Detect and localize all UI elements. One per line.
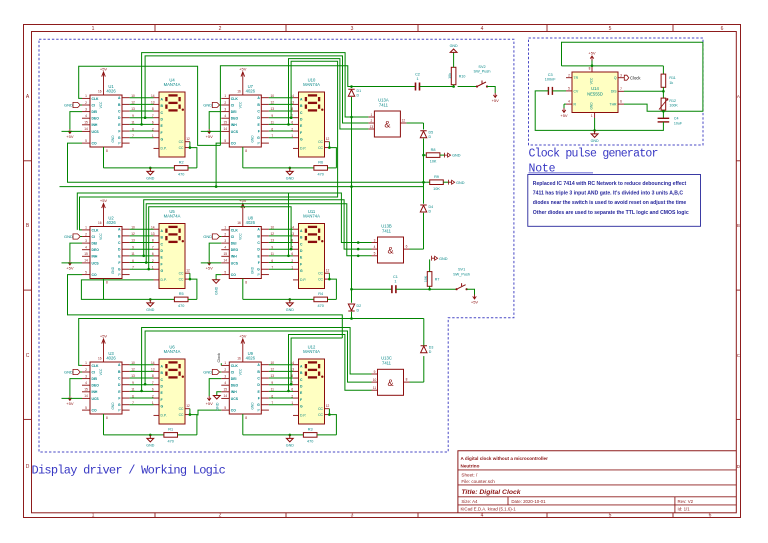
- svg-text:CI: CI: [92, 235, 95, 239]
- svg-text:CLK: CLK: [231, 228, 239, 232]
- svg-text:G: G: [257, 268, 260, 272]
- svg-text:10k: 10k: [448, 73, 452, 79]
- capacitor C4: [658, 117, 670, 119]
- svg-text:5: 5: [224, 139, 226, 143]
- svg-text:8: 8: [152, 107, 154, 111]
- svg-text:16: 16: [237, 356, 241, 360]
- svg-text:2: 2: [219, 513, 222, 519]
- ground label above R7: [432, 256, 438, 261]
- svg-text:GND: GND: [203, 103, 212, 108]
- gnd below U14: [594, 118, 596, 130]
- svg-text:1: 1: [85, 94, 87, 98]
- svg-text:G: G: [257, 136, 260, 140]
- svg-text:GND: GND: [591, 139, 599, 143]
- svg-text:+5V: +5V: [492, 98, 500, 103]
- svg-text:8: 8: [291, 239, 293, 243]
- resistor R10: [451, 67, 456, 84]
- svg-text:CC: CC: [179, 140, 184, 144]
- svg-text:GND: GND: [111, 135, 115, 143]
- svg-text:15: 15: [224, 252, 228, 256]
- svg-text:+5V: +5V: [588, 51, 596, 56]
- power +5V left of U8: [207, 261, 211, 266]
- svg-text:D: D: [26, 464, 30, 470]
- svg-text:GND: GND: [589, 102, 593, 110]
- svg-text:R5: R5: [179, 292, 184, 296]
- svg-text:GND: GND: [111, 402, 115, 410]
- wire DEI to +5V left of U2: [70, 243, 82, 260]
- svg-text:CLK: CLK: [92, 228, 100, 232]
- svg-text:R1: R1: [168, 428, 173, 432]
- svg-text:INH: INH: [231, 123, 237, 127]
- svg-text:+5V: +5V: [100, 334, 108, 339]
- svg-text:Rev: V2: Rev: V2: [678, 499, 694, 504]
- wire row3 bundle line 3: [289, 335, 372, 391]
- svg-text:DEI: DEI: [231, 377, 237, 381]
- svg-text:13: 13: [370, 125, 374, 129]
- svg-text:MAN74A: MAN74A: [164, 214, 181, 219]
- svg-text:10: 10: [131, 225, 135, 229]
- sheet row ticks and letters: [24, 160, 32, 162]
- svg-text:3: 3: [351, 26, 354, 32]
- svg-text:R11: R11: [669, 76, 675, 80]
- svg-text:D.P.: D.P.: [161, 147, 167, 151]
- svg-text:4: 4: [85, 381, 87, 385]
- svg-text:UCS: UCS: [231, 130, 239, 134]
- bottom wire U1 to resistor R2: [104, 167, 175, 169]
- svg-text:13: 13: [131, 239, 135, 243]
- power +5V left of U9: [207, 396, 211, 401]
- svg-text:CC: CC: [318, 146, 323, 150]
- wire UCS U1: [62, 130, 83, 132]
- svg-text:DEO: DEO: [92, 384, 100, 388]
- svg-text:470: 470: [168, 440, 174, 444]
- svg-text:11: 11: [131, 388, 135, 392]
- svg-text:12: 12: [271, 368, 275, 372]
- wire U7 CO to bus2: [216, 143, 221, 187]
- svg-text:D: D: [429, 135, 432, 139]
- svg-text:8: 8: [152, 239, 154, 243]
- svg-text:B: B: [26, 223, 30, 229]
- svg-text:5: 5: [85, 270, 87, 274]
- svg-text:F: F: [300, 398, 302, 402]
- wires segment A-G U9 to U12: [269, 364, 293, 366]
- svg-text:7: 7: [132, 401, 134, 405]
- wire UCS U7: [201, 130, 222, 132]
- svg-text:INH: INH: [92, 123, 98, 127]
- svg-text:R10: R10: [459, 74, 466, 78]
- svg-text:&: &: [387, 246, 393, 256]
- svg-text:3: 3: [224, 107, 226, 111]
- pin8 ground stub of U2: [103, 279, 105, 300]
- wire row3 clock bus: [79, 319, 424, 366]
- svg-text:1: 1: [291, 401, 293, 405]
- svg-text:CC: CC: [179, 146, 184, 150]
- svg-text:1: 1: [85, 361, 87, 365]
- svg-text:14: 14: [151, 225, 155, 229]
- svg-text:12: 12: [271, 232, 275, 236]
- svg-text:2: 2: [568, 73, 570, 77]
- resistor R11: [661, 74, 666, 87]
- svg-text:CLK: CLK: [231, 364, 239, 368]
- svg-text:10: 10: [271, 361, 275, 365]
- svg-text:DEI: DEI: [92, 242, 98, 246]
- svg-text:5: 5: [609, 513, 612, 519]
- svg-text:CO: CO: [92, 142, 97, 146]
- svg-text:CI: CI: [231, 235, 234, 239]
- svg-text:15: 15: [84, 121, 88, 125]
- svg-text:GND: GND: [203, 234, 212, 239]
- svg-text:8: 8: [291, 107, 293, 111]
- svg-text:+5V: +5V: [560, 113, 568, 118]
- svg-text:13: 13: [151, 368, 155, 372]
- svg-text:1: 1: [152, 134, 154, 138]
- wire C3 to gnd rail: [535, 91, 594, 130]
- svg-text:F: F: [161, 398, 163, 402]
- power +5V right of SV2: [487, 87, 495, 94]
- svg-text:12: 12: [186, 404, 190, 408]
- svg-text:470: 470: [178, 304, 184, 308]
- svg-text:D.P.: D.P.: [300, 278, 306, 282]
- svg-text:3: 3: [620, 73, 622, 77]
- pin8 ground stub of U3: [103, 414, 105, 435]
- power +5V below pin R of U14: [564, 103, 566, 105]
- wires segment A-G U7 to U10: [269, 97, 293, 99]
- svg-text:Note: Note: [529, 163, 556, 176]
- svg-text:CO: CO: [231, 273, 236, 277]
- svg-text:1: 1: [591, 114, 593, 118]
- svg-text:12: 12: [186, 137, 190, 141]
- ground label right of R9: [449, 180, 455, 185]
- svg-text:12: 12: [326, 269, 330, 273]
- svg-text:4: 4: [224, 114, 226, 118]
- svg-text:MAN74A: MAN74A: [303, 214, 320, 219]
- wire U13A output to diode chain: [406, 122, 423, 124]
- svg-text:4026: 4026: [246, 89, 256, 94]
- wire CC net of U12: [329, 415, 336, 435]
- svg-text:8: 8: [106, 416, 108, 420]
- power +5V above U8: [241, 204, 245, 209]
- svg-text:Neutrino: Neutrino: [461, 464, 480, 469]
- svg-text:Clock: Clock: [630, 75, 641, 80]
- svg-text:+5V: +5V: [239, 334, 247, 339]
- wire CV to C3: [552, 90, 566, 92]
- svg-text:5: 5: [224, 406, 226, 410]
- wire row3 bundle line 4: [291, 338, 342, 384]
- resistor R9: [430, 180, 444, 185]
- svg-text:D: D: [429, 350, 432, 354]
- svg-text:2: 2: [152, 127, 154, 131]
- svg-text:4: 4: [224, 381, 226, 385]
- svg-text:DIS: DIS: [611, 90, 617, 94]
- svg-text:13: 13: [271, 374, 275, 378]
- counter IC U8 4026: [229, 227, 261, 279]
- svg-text:4: 4: [224, 246, 226, 250]
- svg-text:5: 5: [85, 406, 87, 410]
- wires segment A-G U2 to U5: [130, 228, 154, 230]
- svg-text:CC: CC: [318, 140, 323, 144]
- svg-text:12: 12: [131, 368, 135, 372]
- resistor R3 470: [303, 433, 317, 438]
- resistor R5 470: [174, 297, 188, 302]
- svg-text:G: G: [300, 269, 303, 273]
- gnd below display U12: [289, 434, 292, 437]
- svg-text:4026: 4026: [246, 220, 256, 225]
- svg-text:D3: D3: [429, 346, 434, 350]
- svg-text:15: 15: [224, 121, 228, 125]
- svg-text:NE555D: NE555D: [587, 92, 603, 97]
- svg-text:Size: A4: Size: A4: [461, 499, 478, 504]
- note text box: [528, 175, 701, 227]
- svg-text:MAN74A: MAN74A: [164, 82, 181, 87]
- svg-text:CI: CI: [231, 370, 234, 374]
- svg-text:CLK: CLK: [92, 97, 100, 101]
- svg-text:F: F: [258, 396, 260, 400]
- svg-text:Q: Q: [614, 76, 617, 80]
- resistor R7 vertical: [427, 272, 432, 287]
- svg-text:15: 15: [84, 388, 88, 392]
- svg-text:4: 4: [85, 114, 87, 118]
- svg-text:G: G: [161, 138, 164, 142]
- wire row1 bundle line 3: [289, 59, 369, 129]
- svg-text:4026: 4026: [246, 356, 256, 361]
- svg-text:14: 14: [84, 127, 88, 131]
- svg-text:F: F: [300, 262, 302, 266]
- svg-text:16: 16: [237, 89, 241, 93]
- svg-text:100nF: 100nF: [545, 78, 556, 82]
- svg-text:CV: CV: [574, 89, 579, 93]
- svg-text:3: 3: [224, 374, 226, 378]
- wire row1 bundle line 2: [145, 56, 368, 123]
- svg-text:12: 12: [131, 232, 135, 236]
- svg-text:CC: CC: [318, 413, 323, 417]
- svg-text:8: 8: [406, 378, 408, 382]
- wire CC net of U6: [190, 415, 197, 435]
- gnd above R10: [453, 52, 455, 67]
- svg-text:G: G: [257, 403, 260, 407]
- svg-text:VCC: VCC: [238, 101, 242, 108]
- svg-text:DEO: DEO: [92, 248, 100, 252]
- svg-text:6: 6: [271, 394, 273, 398]
- svg-text:11: 11: [131, 252, 135, 256]
- bottom wire U2 to resistor R5: [104, 298, 175, 300]
- svg-text:14: 14: [224, 127, 228, 131]
- wire row3 bundle line 2: [145, 331, 371, 384]
- svg-text:6: 6: [271, 259, 273, 263]
- svg-text:6: 6: [709, 513, 712, 519]
- svg-text:10K: 10K: [430, 160, 437, 164]
- display U12 MAN74A: [299, 359, 325, 424]
- svg-text:1k: 1k: [669, 81, 673, 85]
- svg-text:F: F: [161, 131, 163, 135]
- svg-text:2: 2: [224, 232, 226, 236]
- svg-text:Replaced IC 7414 with RC Netwo: Replaced IC 7414 with RC Network to redu…: [533, 181, 687, 187]
- svg-text:R4: R4: [318, 292, 323, 296]
- svg-text:SW_Push: SW_Push: [474, 70, 491, 74]
- wire vertical diode chain: [423, 155, 425, 182]
- svg-text:6: 6: [620, 100, 622, 104]
- svg-text:R12: R12: [669, 99, 676, 103]
- svg-text:8: 8: [245, 416, 247, 420]
- svg-text:F: F: [118, 261, 120, 265]
- wire DEI to +5V left of U8: [209, 243, 221, 260]
- gnd below display U5: [149, 298, 152, 301]
- svg-text:10: 10: [271, 225, 275, 229]
- svg-text:2: 2: [85, 232, 87, 236]
- trimmer R12: [662, 91, 664, 98]
- svg-text:11: 11: [131, 121, 135, 125]
- svg-text:7: 7: [132, 265, 134, 269]
- svg-text:GND: GND: [250, 266, 254, 274]
- svg-text:16: 16: [98, 89, 102, 93]
- svg-text:6: 6: [132, 259, 134, 263]
- svg-text:D1: D1: [357, 89, 362, 93]
- svg-text:100K: 100K: [669, 104, 678, 108]
- svg-text:3: 3: [224, 239, 226, 243]
- power +5V right of SV1: [467, 289, 475, 294]
- svg-text:2: 2: [224, 368, 226, 372]
- svg-text:5: 5: [609, 26, 612, 32]
- svg-text:VCC: VCC: [238, 232, 242, 239]
- svg-text:1: 1: [92, 513, 95, 519]
- wire CC net of U4: [190, 148, 197, 168]
- svg-text:6: 6: [291, 388, 293, 392]
- gnd below display U11: [289, 298, 292, 301]
- svg-text:CC: CC: [318, 272, 323, 276]
- svg-text:G: G: [300, 405, 303, 409]
- svg-text:Title: Digital Clock: Title: Digital Clock: [461, 489, 521, 496]
- timer U14 NE555D: [572, 72, 618, 113]
- svg-text:GND: GND: [439, 257, 448, 261]
- display U6 MAN74A: [159, 359, 185, 424]
- svg-text:DEO: DEO: [231, 248, 239, 252]
- svg-text:CI: CI: [92, 370, 95, 374]
- svg-text:14: 14: [84, 259, 88, 263]
- svg-text:INH: INH: [92, 255, 98, 259]
- svg-text:SV2: SV2: [478, 65, 485, 69]
- svg-text:+5V: +5V: [66, 266, 74, 271]
- svg-text:6: 6: [152, 252, 154, 256]
- wires segment A-G U8 to U11: [269, 228, 293, 230]
- svg-text:+5V: +5V: [471, 300, 479, 305]
- svg-text:6: 6: [721, 26, 724, 32]
- wire row1 left unit loop: [79, 66, 221, 145]
- wire U8 CO to ground: [216, 275, 221, 278]
- wire DEI to +5V left of U9: [209, 379, 221, 396]
- power +5V left of U3: [68, 396, 72, 401]
- pin8 ground stub of U8: [242, 279, 244, 300]
- svg-text:SV1: SV1: [458, 268, 465, 272]
- svg-text:CO: CO: [231, 142, 236, 146]
- svg-text:D: D: [357, 308, 360, 312]
- wire U9 INH to ground: [217, 392, 222, 393]
- svg-text:7411: 7411: [379, 102, 389, 107]
- wire DEI to +5V left of U1: [70, 112, 82, 129]
- svg-text:14: 14: [224, 394, 228, 398]
- op-amp U13C 7411 AND gate: [378, 369, 404, 395]
- svg-text:DEI: DEI: [231, 242, 237, 246]
- svg-text:9: 9: [132, 114, 134, 118]
- svg-text:2: 2: [291, 259, 293, 263]
- svg-text:8: 8: [589, 67, 591, 71]
- display U4 MAN74A: [159, 92, 185, 157]
- svg-text:470: 470: [307, 440, 313, 444]
- svg-text:+5V: +5V: [239, 198, 247, 203]
- svg-text:2: 2: [291, 394, 293, 398]
- svg-text:diodes near the switch is used: diodes near the switch is used to avoid …: [533, 200, 687, 206]
- svg-text:2: 2: [291, 127, 293, 131]
- svg-text:2: 2: [371, 119, 373, 123]
- svg-text:4: 4: [568, 100, 570, 104]
- svg-text:INH: INH: [231, 390, 237, 394]
- svg-text:12: 12: [131, 101, 135, 105]
- wire row2 bundle line 1: [77, 193, 371, 243]
- svg-text:G: G: [300, 138, 303, 142]
- wire U13C output to D3: [410, 381, 424, 383]
- dashed region Display driver / Working Logic: [39, 39, 514, 452]
- svg-text:13: 13: [271, 239, 275, 243]
- svg-text:INH: INH: [231, 255, 237, 259]
- svg-text:7: 7: [152, 245, 154, 249]
- svg-text:DEO: DEO: [92, 117, 100, 121]
- svg-text:10: 10: [373, 378, 377, 382]
- resistor R2 470: [174, 166, 188, 171]
- svg-text:GND: GND: [111, 266, 115, 274]
- svg-text:MAN74A: MAN74A: [303, 82, 320, 87]
- svg-text:9: 9: [374, 370, 376, 374]
- svg-text:11: 11: [271, 388, 275, 392]
- svg-text:GND: GND: [215, 402, 219, 410]
- svg-text:2: 2: [85, 368, 87, 372]
- diode D4: [420, 205, 426, 212]
- title block frame: [458, 451, 736, 513]
- counter IC U3 4026: [90, 362, 122, 414]
- diode D5: [420, 131, 426, 138]
- svg-text:CC: CC: [179, 278, 184, 282]
- svg-text:15: 15: [224, 388, 228, 392]
- counter IC U7 4026: [229, 95, 261, 147]
- svg-text:CO: CO: [92, 409, 97, 413]
- svg-text:CO: CO: [231, 409, 236, 413]
- svg-text:R6: R6: [318, 161, 323, 165]
- svg-text:A: A: [737, 94, 740, 99]
- svg-text:DEI: DEI: [231, 110, 237, 114]
- svg-text:F: F: [258, 129, 260, 133]
- svg-text:9: 9: [271, 245, 273, 249]
- svg-text:10K: 10K: [433, 187, 440, 191]
- dashed region Clock pulse generator: [529, 38, 704, 145]
- power +5V above U1: [102, 72, 106, 77]
- svg-text:2: 2: [219, 26, 222, 32]
- wire row1 bundle line 4 to row2 clock: [80, 61, 338, 230]
- wire DP row2: [81, 280, 153, 300]
- svg-text:1: 1: [416, 77, 418, 81]
- power +5V above U9: [241, 339, 245, 344]
- svg-text:GND: GND: [250, 402, 254, 410]
- svg-text:7411: 7411: [382, 361, 392, 366]
- svg-text:15: 15: [84, 252, 88, 256]
- power +5V above U14: [591, 60, 593, 66]
- svg-text:4026: 4026: [106, 89, 116, 94]
- svg-text:VCC: VCC: [99, 101, 103, 108]
- svg-text:F: F: [161, 262, 163, 266]
- svg-text:7411: 7411: [382, 228, 392, 233]
- svg-text:F: F: [300, 131, 302, 135]
- svg-text:16: 16: [98, 221, 102, 225]
- svg-text:10: 10: [131, 361, 135, 365]
- svg-text:GND: GND: [456, 181, 465, 185]
- svg-text:GND: GND: [64, 370, 73, 375]
- ground at U9 INH: [216, 393, 218, 396]
